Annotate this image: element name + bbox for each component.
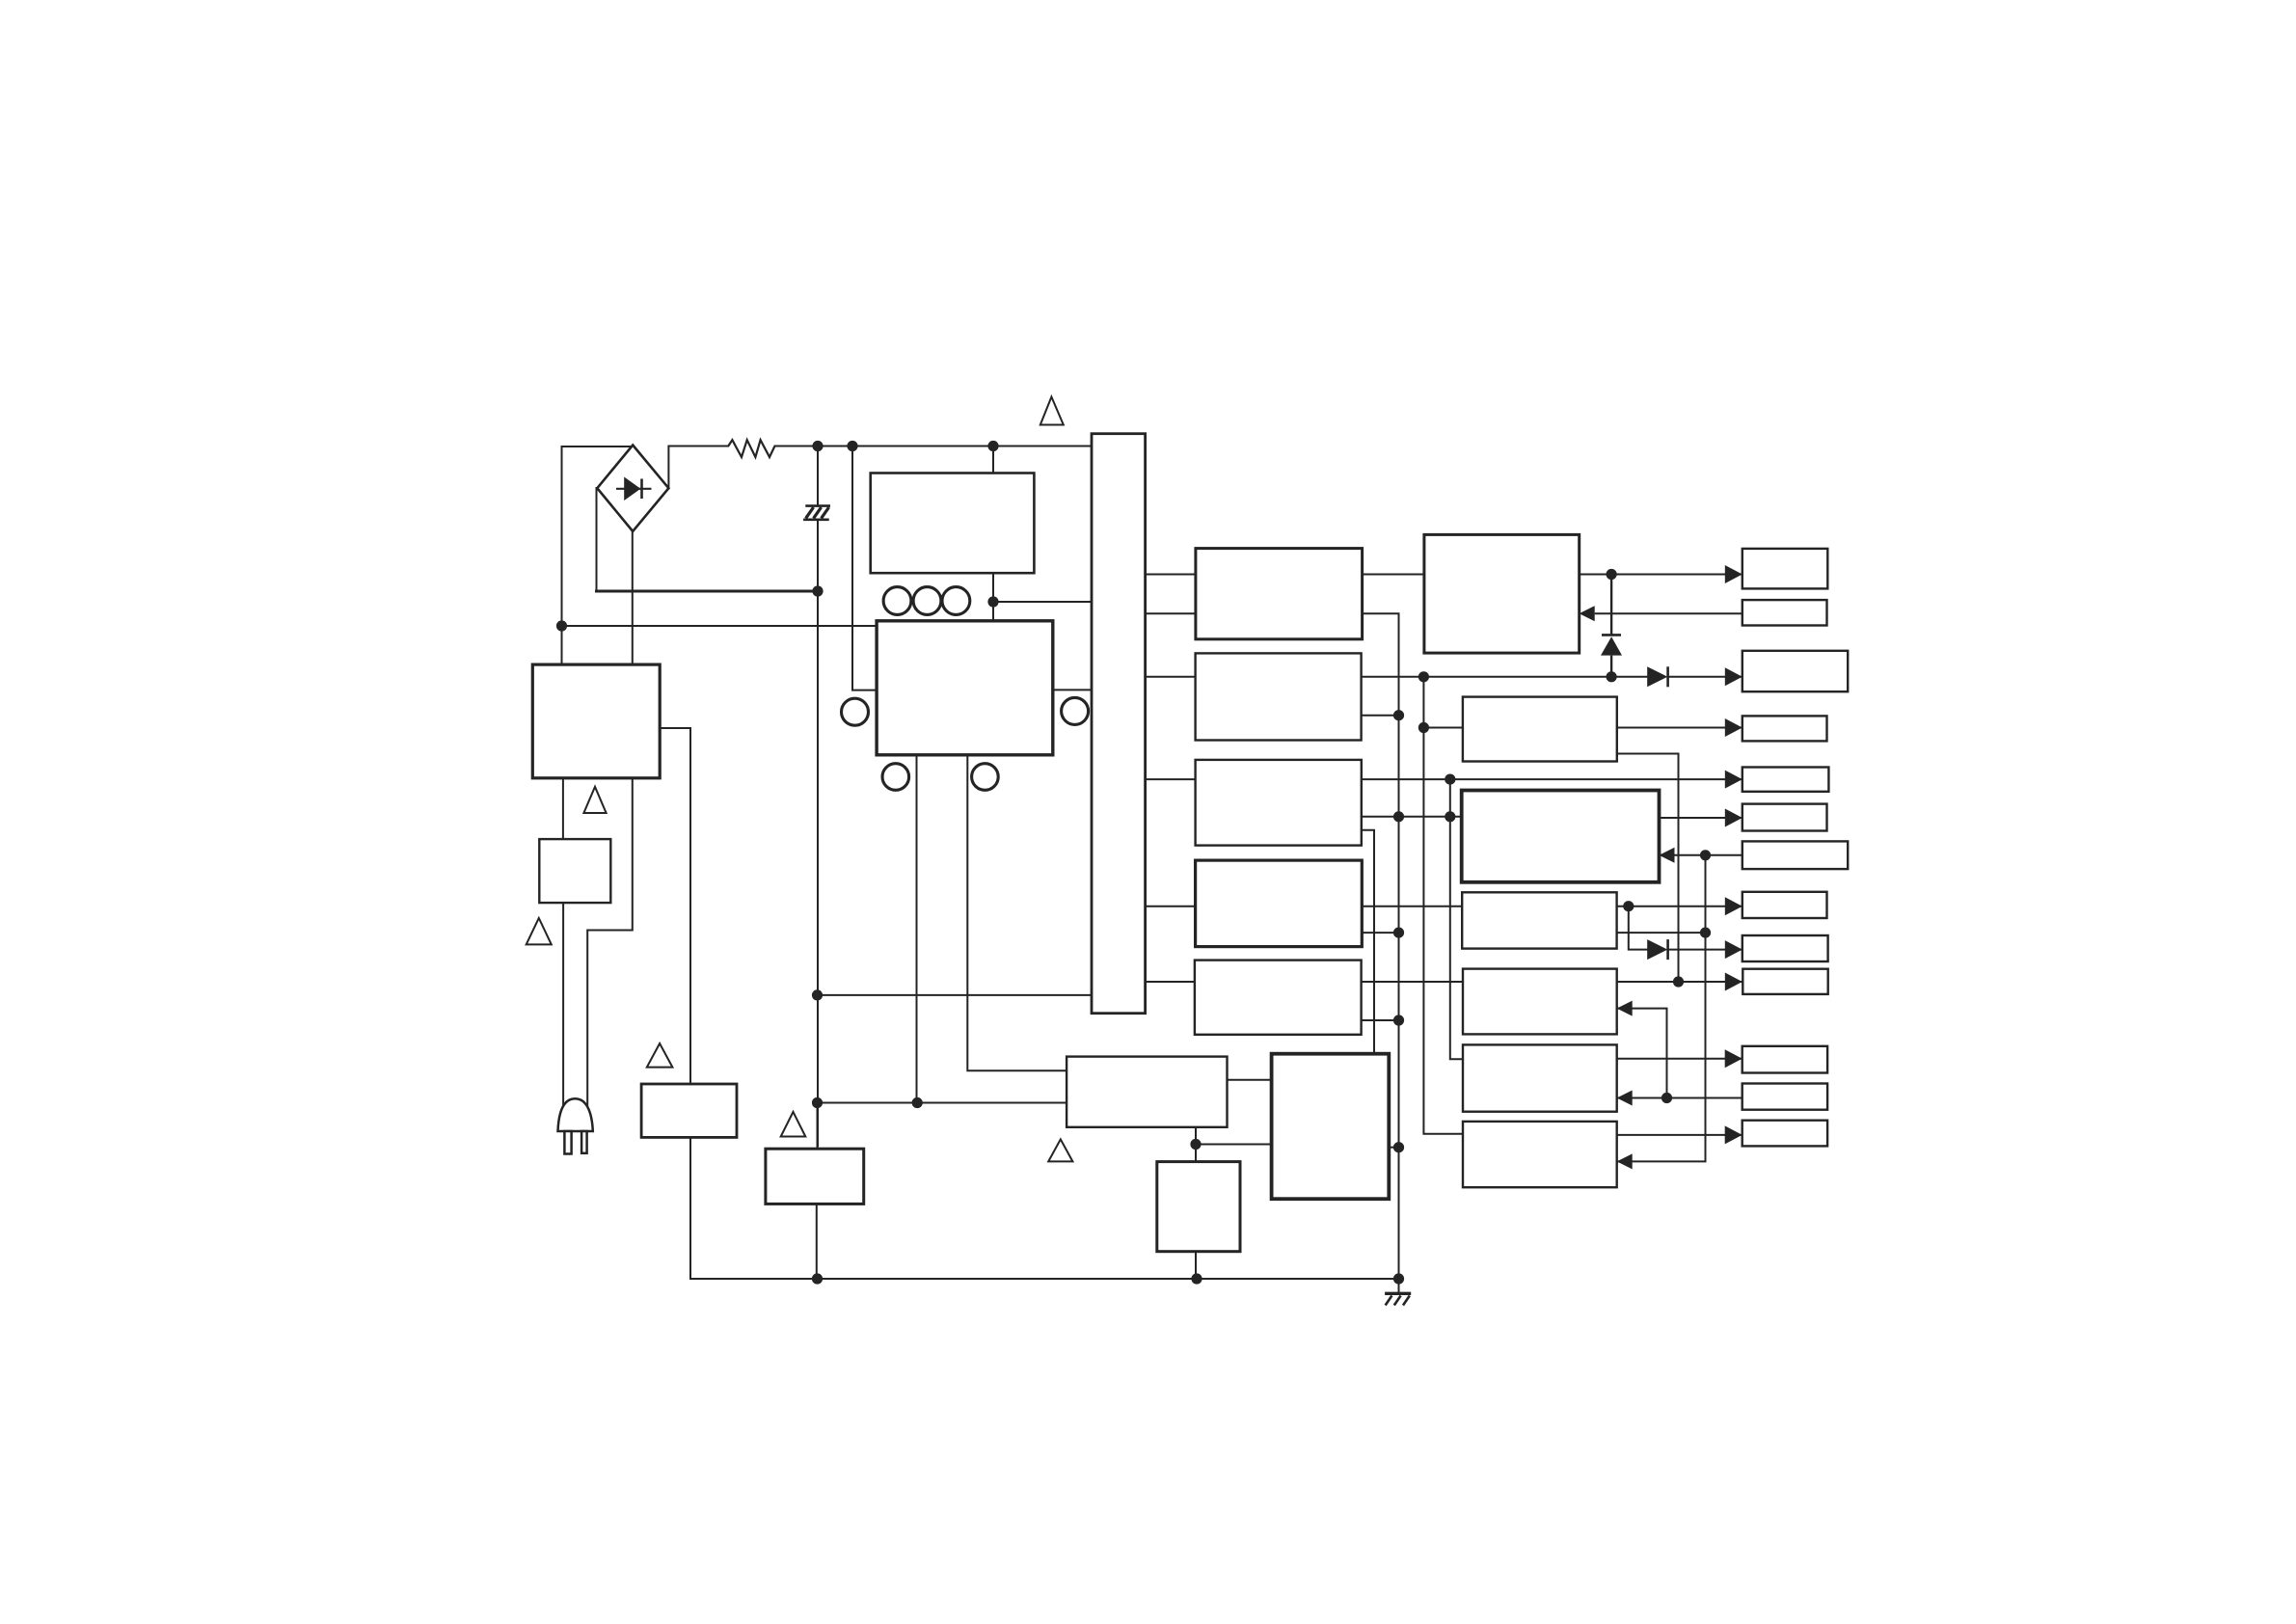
block row2 regulator 2 [1196,653,1362,740]
output O1 [1742,549,1828,589]
wire L2 to plug [562,903,564,1109]
wire block1 out b to common [1363,613,1398,1279]
wire chassis branch lower [817,520,819,1147]
wire block2 out to O3 rail [1362,676,1648,678]
output O13 [1742,1121,1827,1147]
wire B2 pin right drop [967,755,1067,1070]
block L3 relay [641,1084,737,1137]
chassis ground bottom right [1385,1293,1411,1305]
wire ground rail to bus [818,994,1093,996]
block row4 regulator 4 [1196,860,1363,947]
block B2 main switching IC [877,621,1053,755]
wire L1 stub to L3 [660,728,690,1084]
wire L1 bottom to L2 [562,778,564,839]
block R2 [1463,697,1617,762]
wire M1 branch to R8 [1196,1144,1272,1146]
bridge diode symbol [616,477,652,501]
wire block3 out b to R3 [1362,816,1462,818]
block R5 [1463,969,1617,1035]
warning triangle T5 [781,1112,806,1137]
wire block4 to R4 [1362,906,1462,907]
block row1 regulator 1 [1196,549,1363,639]
warning triangle T3 [527,918,552,944]
wire vertical 1768 to R7 [1617,855,1706,1162]
block row3 regulator 3 [1196,760,1362,846]
vertical diode D1 at node [1601,635,1622,655]
block M1 driver [1067,1057,1227,1127]
wire block1 to R1 [1363,574,1424,576]
wire bridge right vertex riser [668,447,728,489]
output O5 [1742,768,1829,792]
wire bus to block4 input [1146,906,1196,907]
wire O12 to R6 [1617,1097,1742,1099]
connector circle left of B2 [842,698,869,725]
wire bus to block1 input b [1146,612,1196,614]
block L4 sensor [766,1149,864,1204]
wire block5 out b [1362,1019,1399,1021]
connector circle below B2 right [972,764,999,791]
wire block2 out b [1362,715,1399,717]
wire block3 out to O5 [1362,778,1742,780]
wire O2 to R1 [1595,612,1742,614]
arrowheads into output boxes [1580,565,1742,1169]
wire block3 stub to R8 [1362,830,1374,1054]
connector circle right of B2 [1062,697,1089,724]
wire R5 feedback [1617,1009,1667,1098]
output O9 [1742,935,1828,961]
output O3 [1742,651,1848,691]
wire R2 input [1423,727,1463,729]
feedback arrowheads pointing left [1580,606,1595,621]
output O2 [1742,600,1827,625]
wire bus to block3 input [1146,778,1196,780]
wire AC top-left horizontal [562,446,633,447]
wire common vertical mid [1423,677,1463,1134]
wire O1 feed [1580,574,1742,576]
wire L1 jog to plug [587,778,633,1111]
output O7 [1742,841,1848,869]
wire ground rail to M1 [818,1102,1067,1104]
block row5 regulator 5 [1195,961,1362,1035]
wire B2 to bus [1053,689,1092,690]
wire B1 to bus [993,601,1092,603]
warning triangle T1 [527,397,1073,1162]
wire B1 bottom pin [992,573,994,621]
wire B1 top pin [992,447,994,474]
connector circle below B2 left [882,764,909,791]
block R6 [1463,1044,1617,1111]
block R8 [1272,1054,1390,1200]
wire L4 bottom [816,1204,818,1279]
vertical diode branch [1610,575,1612,677]
power plug [558,1098,593,1153]
wire block5 to R5 [1362,981,1463,983]
wire diode to O9 [1668,949,1742,951]
block B1 oscillator [871,474,1035,574]
wire R5 out to O10 [1617,981,1742,983]
warning triangle T2 [583,787,606,813]
wire R8 out to common [1389,1147,1398,1149]
wire chassis branch upper [817,447,819,506]
wire B2 pin left drop [916,755,918,1103]
wire bus to block2 input [1146,676,1196,678]
wire O7 to R3 [1660,854,1742,856]
wire ground stub [1398,1279,1400,1292]
wire M2 bottom to ground line [1195,1252,1197,1279]
block M2 sub circuit [1157,1162,1240,1252]
wire bus to block5 input [1146,981,1195,983]
block R7 [1463,1122,1617,1187]
wire L3 to ground rail [690,1137,818,1279]
wire R4 out b [1617,932,1706,934]
block L2 fuse unit [539,839,610,903]
wire M1 out to R8 [1228,1079,1272,1081]
wire bottom ground line [818,1278,1399,1280]
resistor R (surge) [728,440,774,457]
wire vertical 1504 [1450,779,1463,1059]
wire R3 out to O6 [1660,817,1742,819]
series diode D2 on O3 line [1647,666,1667,687]
bridge rectifier [597,446,668,532]
warning triangle T7 [1048,1139,1072,1161]
wire node line to B2 [562,625,878,627]
block R4 [1462,892,1616,948]
block R3 [1462,791,1660,882]
wire L4 top feed [817,1103,819,1150]
block L1 line filter [532,664,660,778]
block R1 converter [1424,534,1580,653]
wire M1 bottom to M2 [1195,1127,1197,1162]
output O10 [1742,969,1827,994]
output O8 [1742,892,1827,918]
wire AC left vertical [561,447,563,664]
output O4 [1742,716,1827,741]
wire R4 branch to O9 [1629,907,1647,950]
wire bridge left vertex drop [596,488,598,591]
output O12 [1742,1084,1827,1110]
connector circles above B2 [842,587,1089,791]
wire R2 out to O4 [1617,727,1742,729]
wire R4 out to O8 [1617,906,1742,907]
wire block4 out b [1362,932,1398,934]
output O6 [1742,804,1827,831]
warning triangle T4 [647,1043,673,1068]
wire diode to O3 [1668,676,1742,678]
wire bridge bottom return [632,531,634,664]
wire rail riser into B2 [852,447,877,690]
wire top rail after resistor [775,446,1093,447]
bus bar [1092,434,1146,1014]
chassis symbol top (thermal fuse) [803,506,830,520]
wire bridge return horizontal [597,590,819,593]
output O11 [1742,1046,1827,1073]
wire R6 out to O11 [1617,1058,1742,1060]
wire bus to block1 input a [1146,574,1196,576]
series diode D3 on O9 line [1647,939,1667,960]
wire R2 out b [1617,754,1679,983]
wire R7 out to O13 [1617,1134,1742,1136]
